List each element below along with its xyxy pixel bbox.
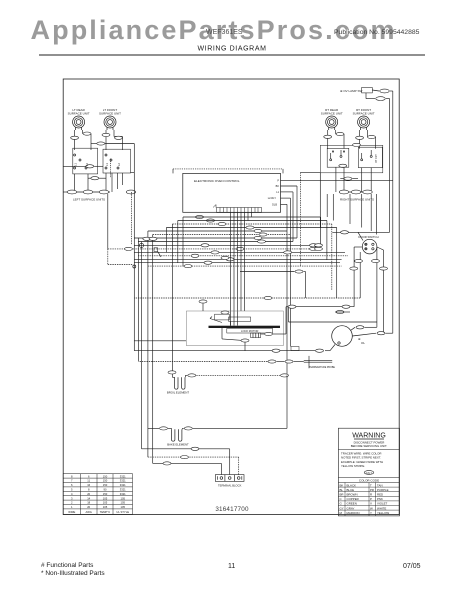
- svg-text:BK: BK: [276, 185, 280, 188]
- svg-text:TERMINAL BLOCK: TERMINAL BLOCK: [218, 484, 242, 488]
- svg-text:BK: BK: [340, 483, 344, 487]
- svg-text:20: 20: [87, 492, 90, 496]
- svg-text:RED: RED: [377, 493, 383, 497]
- svg-text:3321: 3321: [120, 488, 126, 492]
- svg-text:UL STYLE: UL STYLE: [116, 510, 129, 514]
- svg-text:BEFORE SERVICING UNIT.: BEFORE SERVICING UNIT.: [351, 444, 388, 448]
- door switch left feed wire: [358, 232, 363, 240]
- svg-text:11: 11: [87, 479, 90, 483]
- connector comb at bottom: [213, 205, 262, 213]
- wires burner RR to switch: [324, 130, 344, 149]
- LR surface switch: [73, 148, 98, 174]
- svg-text:P: P: [370, 497, 372, 501]
- svg-text:BLUE: BLUE: [347, 488, 355, 492]
- left bus verticals: [108, 144, 186, 464]
- svg-text:C: C: [340, 497, 342, 501]
- svg-text:* Non-Illustrated Parts: * Non-Illustrated Parts: [41, 570, 105, 577]
- svg-text:V: V: [370, 502, 372, 506]
- svg-text:LEFT SURFACE UNITS: LEFT SURFACE UNITS: [73, 198, 105, 202]
- svg-text:TAN: TAN: [377, 483, 383, 487]
- svg-text:3: 3: [71, 496, 73, 500]
- svg-text:TEMPERATURE PROBE: TEMPERATURE PROBE: [309, 366, 335, 369]
- svg-text:COPPER: COPPER: [347, 497, 359, 501]
- svg-text:VIOLET: VIOLET: [377, 502, 388, 506]
- svg-text:WEF361ES: WEF361ES: [206, 29, 243, 36]
- terminal block: [215, 475, 244, 488]
- svg-text:COLOR CODE: COLOR CODE: [359, 479, 379, 483]
- oven lamp switch top right: [340, 88, 393, 101]
- svg-text:GY: GY: [340, 506, 344, 510]
- right rear surface unit: [326, 116, 338, 130]
- svg-text:LOCK MOTOR: LOCK MOTOR: [241, 329, 259, 333]
- svg-text:⊕ OV LAMP SW: ⊕ OV LAMP SW: [340, 89, 362, 93]
- right bus verticals: [327, 91, 393, 333]
- svg-text:150: 150: [103, 492, 108, 496]
- svg-text:BR: BR: [340, 493, 344, 497]
- left pair linking wires and labels: [63, 142, 134, 180]
- main frame: [39, 55, 425, 515]
- svg-text:105: 105: [103, 501, 108, 505]
- svg-text:SURFACE UNIT: SURFACE UNIT: [353, 112, 375, 116]
- wires below left switches: [63, 173, 136, 202]
- warning box: [338, 428, 399, 516]
- svg-text:RT FRT: RT FRT: [375, 154, 378, 163]
- svg-text:R: R: [370, 493, 372, 497]
- svg-text:105: 105: [120, 496, 125, 500]
- svg-text:3321: 3321: [120, 479, 126, 483]
- EOC left ovals: [196, 215, 215, 222]
- left rear surface unit label: [68, 108, 375, 116]
- svg-text:RIGHT SURFACE UNITS: RIGHT SURFACE UNITS: [340, 198, 374, 202]
- svg-text:3321: 3321: [120, 483, 126, 487]
- svg-text:WARNING: WARNING: [352, 433, 386, 440]
- wires burner LR to switch: [71, 130, 91, 150]
- svg-text:PURPLE: PURPLE: [377, 488, 389, 492]
- svg-text:5: 5: [71, 488, 73, 492]
- svg-text:L1: L1: [105, 163, 109, 166]
- svg-text:L1: L1: [276, 191, 279, 194]
- svg-text:GRAY: GRAY: [347, 506, 355, 510]
- svg-text:16: 16: [87, 483, 90, 487]
- svg-text:8: 8: [88, 488, 90, 492]
- svg-text:BROWN: BROWN: [347, 493, 358, 497]
- svg-text:GN-Y: GN-Y: [366, 471, 373, 475]
- svg-text:150: 150: [103, 474, 108, 478]
- svg-text:YELLOW STRIPE.: YELLOW STRIPE.: [341, 464, 365, 468]
- svg-text:AWG: AWG: [86, 510, 92, 514]
- svg-text:6: 6: [88, 474, 90, 478]
- svg-text:3321: 3321: [120, 474, 126, 478]
- svg-text:20: 20: [87, 505, 90, 509]
- dashed link above EOC: [173, 168, 283, 170]
- svg-text:# Functional Parts: # Functional Parts: [41, 562, 94, 569]
- svg-text:PR: PR: [370, 488, 374, 492]
- lock motor assembly: [186, 300, 286, 351]
- svg-text:150: 150: [103, 479, 108, 483]
- svg-text:105: 105: [103, 505, 108, 509]
- svg-text:DLB: DLB: [272, 203, 277, 206]
- svg-text:MAROON: MAROON: [347, 511, 360, 515]
- header model number text: [197, 29, 419, 53]
- wire mesh horizontal bus: [108, 217, 348, 298]
- svg-text:T: T: [370, 483, 372, 487]
- svg-text:105: 105: [120, 505, 125, 509]
- left front surface unit: [104, 116, 116, 130]
- svg-text:1: 1: [71, 505, 73, 509]
- svg-text:GREEN: GREEN: [347, 502, 357, 506]
- svg-text:YELLOW: YELLOW: [377, 511, 389, 515]
- broil element: [167, 224, 289, 395]
- left rear surface unit: [73, 116, 85, 130]
- svg-text:WIRE: WIRE: [68, 510, 75, 514]
- svg-text:SURFACE UNIT: SURFACE UNIT: [99, 112, 121, 116]
- svg-text:L2: L2: [117, 163, 121, 166]
- svg-text:WHITE: WHITE: [377, 506, 386, 510]
- right side pin labels: [268, 180, 280, 207]
- bottom wiring to terminal block: [142, 447, 239, 474]
- svg-text:G: G: [340, 502, 343, 506]
- svg-text:11: 11: [228, 563, 235, 570]
- svg-text:3321: 3321: [120, 492, 126, 496]
- mesh vertical drops from EOC comb: [231, 213, 252, 326]
- door switch plug: [134, 231, 389, 334]
- svg-text:7: 7: [71, 479, 73, 483]
- svg-text:SURFACE UNIT: SURFACE UNIT: [68, 112, 90, 116]
- LF surface switch: [103, 149, 131, 173]
- svg-text:Y: Y: [370, 511, 372, 515]
- oven lamp: [134, 326, 393, 353]
- door switch lower links: [286, 306, 354, 308]
- svg-text:90: 90: [104, 488, 107, 492]
- svg-text:PNK: PNK: [377, 497, 383, 501]
- svg-text:WIRING DIAGRAM: WIRING DIAGRAM: [197, 46, 266, 53]
- svg-text:BL: BL: [340, 488, 344, 492]
- oven sensor probe: [139, 349, 336, 369]
- svg-text:6: 6: [71, 483, 73, 487]
- RF surface switch: [358, 147, 382, 167]
- svg-text:07/05: 07/05: [403, 563, 421, 570]
- mesh wire labels: [125, 222, 323, 267]
- svg-text:150: 150: [103, 483, 108, 487]
- bake element: [148, 427, 287, 447]
- oval row left: [67, 190, 77, 194]
- svg-text:Publication No. 5995442885: Publication No. 5995442885: [334, 29, 420, 36]
- door switch leg wires: [354, 246, 362, 248]
- RR surface switch: [327, 148, 349, 167]
- right front surface unit: [358, 116, 370, 130]
- wires burner LF to switch: [102, 130, 123, 150]
- svg-text:BLACK: BLACK: [347, 483, 357, 487]
- EOC right pin wires: [281, 181, 393, 429]
- svg-text:2: 2: [71, 501, 73, 505]
- svg-text:105: 105: [103, 496, 108, 500]
- wires burner RF to switch: [356, 130, 376, 149]
- svg-text:TEMP°C: TEMP°C: [100, 510, 111, 514]
- svg-text:L2: L2: [85, 163, 89, 166]
- svg-text:L1: L1: [74, 163, 78, 166]
- svg-text:105: 105: [120, 501, 125, 505]
- wire gauge table: [63, 474, 132, 515]
- svg-text:ELECTRONIC OVEN CONTROL: ELECTRONIC OVEN CONTROL: [194, 179, 240, 183]
- svg-text:316417700: 316417700: [215, 506, 249, 513]
- svg-text:BROIL ELEMENT: BROIL ELEMENT: [167, 391, 190, 395]
- svg-text:SURFACE UNIT: SURFACE UNIT: [321, 112, 343, 116]
- svg-text:P: P: [277, 180, 279, 183]
- svg-text:OL: OL: [361, 341, 365, 345]
- svg-text:L2-RLY: L2-RLY: [268, 197, 277, 200]
- svg-text:14: 14: [87, 496, 90, 500]
- oval labels under LR burner: [71, 136, 79, 139]
- svg-text:BAKE ELEMENT: BAKE ELEMENT: [167, 442, 189, 446]
- svg-text:4: 4: [71, 492, 73, 496]
- electronic oven control: [183, 173, 281, 212]
- junction circle components: [139, 243, 143, 247]
- right pair outer box and links: [301, 143, 383, 266]
- svg-text:8: 8: [71, 474, 73, 478]
- svg-text:W: W: [370, 506, 373, 510]
- svg-text:18: 18: [87, 501, 90, 505]
- wires below right switches: [336, 167, 374, 201]
- footer: [41, 562, 421, 577]
